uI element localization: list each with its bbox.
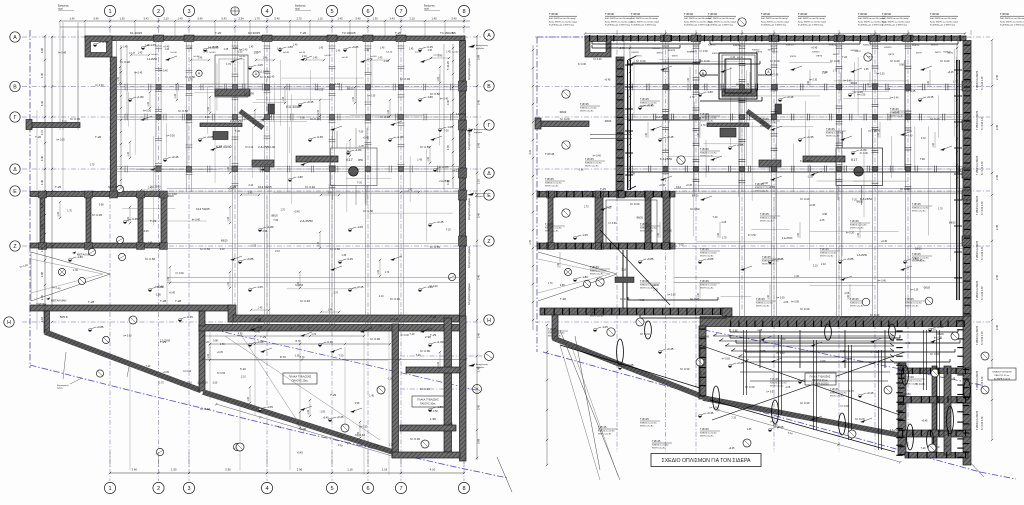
left plan room partition wall a bbox=[40, 197, 45, 244]
svg-text:+0.45: +0.45 bbox=[866, 391, 874, 395]
svg-text:ΚΦ8/20 αν στο 8ο: ΚΦ8/20 αν στο 8ο bbox=[760, 122, 777, 125]
svg-text:Φ8/20: Φ8/20 bbox=[167, 195, 174, 198]
svg-text:1.45: 1.45 bbox=[233, 48, 238, 50]
right plan boundary blue top bbox=[537, 36, 585, 38]
svg-text:1.40: 1.40 bbox=[748, 82, 750, 87]
svg-text:1.45: 1.45 bbox=[341, 254, 346, 257]
right plan left margin dim line bbox=[529, 45, 534, 330]
svg-text:Β: Β bbox=[13, 84, 17, 90]
svg-text:1: 1 bbox=[108, 486, 111, 492]
svg-text:1.45: 1.45 bbox=[249, 47, 254, 49]
svg-text:Φ8/70: Φ8/70 bbox=[888, 53, 895, 56]
left plan small labels bbox=[35, 31, 456, 441]
svg-text:2.10: 2.10 bbox=[813, 264, 818, 267]
svg-text:2.10: 2.10 bbox=[931, 328, 936, 331]
svg-text:Α: Α bbox=[13, 35, 17, 41]
svg-text:Φ8/70 πλω 8ο: Φ8/70 πλω 8ο bbox=[548, 335, 562, 338]
svg-text:h= 0.40: h= 0.40 bbox=[904, 135, 913, 138]
svg-text:h= 0.40: h= 0.40 bbox=[176, 272, 185, 275]
svg-text:Εγκάρσιος: Εγκάρσιος bbox=[58, 5, 70, 8]
svg-text:Φ8/70 πλω 8ο: Φ8/70 πλω 8ο bbox=[770, 385, 784, 388]
svg-text:Φ=Φ8/20 μαζ 2.Φ8/70 4φ: Φ=Φ8/20 μαζ 2.Φ8/70 4φ bbox=[631, 23, 656, 26]
svg-text:1.10: 1.10 bbox=[477, 178, 481, 184]
svg-text:Τ-20: Τ-20 bbox=[204, 341, 210, 344]
svg-text:Ι=0.40: Ι=0.40 bbox=[386, 51, 393, 53]
svg-text:1.40: 1.40 bbox=[431, 17, 437, 21]
svg-text:Φ=Φ8/20 μαζ 2.Φ8/70 4φ: Φ=Φ8/20 μαζ 2.Φ8/70 4φ bbox=[930, 23, 955, 26]
svg-text:+0.45: +0.45 bbox=[619, 47, 626, 50]
right plan heavy rebar left wall bbox=[625, 56, 762, 190]
svg-text:Φ8/70 πλω 8ο: Φ8/70 πλω 8ο bbox=[700, 435, 714, 438]
svg-text:8.70: 8.70 bbox=[295, 339, 301, 343]
svg-text:+0.45: +0.45 bbox=[323, 417, 330, 420]
svg-text:Τ Ø8/20 αν Φ8/70: Τ Ø8/20 αν Φ8/70 bbox=[976, 410, 979, 430]
svg-text:Φ8/20: Φ8/20 bbox=[692, 194, 699, 197]
svg-text:h= 0.50: h= 0.50 bbox=[167, 135, 176, 138]
svg-text:h= 0.40 2.40: h= 0.40 2.40 bbox=[981, 246, 984, 260]
svg-text:+0.45: +0.45 bbox=[169, 292, 176, 295]
left plan left row bubbles bbox=[4, 32, 20, 327]
svg-text:Φ=Φ8/20 μαζ 2.Φ8/70 4φ: Φ=Φ8/20 μαζ 2.Φ8/70 4φ bbox=[798, 23, 823, 26]
svg-text:Κάτω Φ8/70 αν στο 8ο σκαρί: Κάτω Φ8/70 αν στο 8ο σκαρί bbox=[930, 20, 958, 23]
svg-text:h= 0.30: h= 0.30 bbox=[630, 202, 640, 206]
svg-text:1.40: 1.40 bbox=[868, 82, 870, 87]
svg-text:1.45: 1.45 bbox=[529, 239, 532, 244]
svg-text:Τ Ø=45: Τ Ø=45 bbox=[590, 265, 599, 269]
svg-text:2.10: 2.10 bbox=[302, 55, 307, 58]
svg-text:h= 0.40 2.40: h= 0.40 2.40 bbox=[981, 76, 984, 90]
svg-text:-1.05: -1.05 bbox=[356, 225, 363, 229]
svg-text:ΠΛΑΚΑ ΤΥΦΛΩΣΗΣ: ΠΛΑΚΑ ΤΥΦΛΩΣΗΣ bbox=[992, 371, 1012, 374]
svg-text:Τ Ø=40: Τ Ø=40 bbox=[930, 12, 939, 16]
svg-text:1.45: 1.45 bbox=[408, 189, 413, 192]
svg-text:Φ8/70 πλω 8ο: Φ8/70 πλω 8ο bbox=[580, 110, 594, 113]
svg-text:1.45: 1.45 bbox=[40, 294, 44, 300]
svg-text:8.70: 8.70 bbox=[280, 355, 286, 359]
svg-text:h= 0.50: h= 0.50 bbox=[200, 247, 210, 251]
right plan column K11 bbox=[775, 104, 782, 114]
svg-text:Τ-20: Τ-20 bbox=[444, 129, 450, 132]
svg-text:ΚΦ8/20 αν στο 8ο: ΚΦ8/20 αν στο 8ο bbox=[820, 252, 837, 255]
right plan interior annotation blocks bbox=[545, 97, 932, 438]
svg-text:Τ-20: Τ-20 bbox=[823, 71, 829, 74]
svg-text:+1.80: +1.80 bbox=[266, 225, 274, 229]
svg-text:1.70: 1.70 bbox=[333, 291, 338, 294]
svg-text:Τ-20: Τ-20 bbox=[273, 219, 279, 222]
svg-text:Η: Η bbox=[7, 320, 11, 326]
svg-text:ΠΛΑΚΑ ΤΥΦΛΩΣΗΣ: ΠΛΑΚΑ ΤΥΦΛΩΣΗΣ bbox=[810, 376, 831, 379]
svg-text:Κ5: Κ5 bbox=[452, 31, 456, 35]
svg-text:ΚΦ8/20 αν στο 8ο: ΚΦ8/20 αν στο 8ο bbox=[905, 302, 922, 305]
svg-text:-1.05: -1.05 bbox=[783, 301, 789, 304]
svg-text:+0.85: +0.85 bbox=[351, 45, 359, 49]
svg-text:-1.80: -1.80 bbox=[581, 275, 588, 279]
svg-text:Τ-20: Τ-20 bbox=[338, 435, 344, 438]
svg-text:3.40: 3.40 bbox=[477, 212, 481, 218]
svg-text:Τ-28: Τ-28 bbox=[560, 297, 566, 301]
svg-text:ΚΦ8/20: ΚΦ8/20 bbox=[812, 50, 820, 53]
svg-text:1.45: 1.45 bbox=[123, 47, 128, 49]
svg-text:Τ Ø=45: Τ Ø=45 bbox=[585, 157, 594, 161]
svg-text:Τ Ø=45: Τ Ø=45 bbox=[598, 426, 607, 429]
right plan slab label a bbox=[805, 373, 836, 386]
svg-text:Κάτω Φ8/70 αν στο 8ο σκαρί: Κάτω Φ8/70 αν στο 8ο σκαρί bbox=[761, 20, 789, 23]
svg-text:h= 0.50: h= 0.50 bbox=[767, 391, 776, 394]
svg-text:+0.85: +0.85 bbox=[846, 257, 854, 261]
svg-text:Α: Α bbox=[487, 33, 491, 39]
svg-text:2.45: 2.45 bbox=[995, 324, 999, 330]
svg-text:1.40: 1.40 bbox=[347, 149, 350, 154]
svg-text:Δ: Δ bbox=[487, 171, 491, 177]
svg-text:1.40: 1.40 bbox=[227, 216, 230, 221]
svg-text:Τ Ø=40: Τ Ø=40 bbox=[549, 12, 558, 16]
svg-text:1.45: 1.45 bbox=[328, 192, 333, 195]
right plan top rebar annotation blocks bbox=[549, 12, 1024, 26]
svg-text:+0.45: +0.45 bbox=[916, 259, 923, 262]
svg-text:+0.85: +0.85 bbox=[206, 135, 214, 139]
svg-text:1.70: 1.70 bbox=[548, 282, 553, 285]
svg-text:1.70: 1.70 bbox=[690, 96, 695, 99]
svg-text:5.10: 5.10 bbox=[240, 367, 246, 371]
svg-text:h= 0.30: h= 0.30 bbox=[809, 78, 818, 81]
svg-text:Τ-28: Τ-28 bbox=[160, 299, 167, 303]
svg-text:-1.05: -1.05 bbox=[251, 245, 257, 248]
svg-text:h= 0.46: h= 0.46 bbox=[390, 317, 399, 321]
svg-text:-1.80: -1.80 bbox=[296, 175, 303, 179]
svg-text:3.40: 3.40 bbox=[132, 468, 138, 472]
left plan trapezoid dimension lines bbox=[206, 332, 391, 442]
svg-text:+0.45: +0.45 bbox=[306, 100, 314, 104]
svg-text:Φ8/70 πλω 8ο: Φ8/70 πλω 8ο bbox=[590, 273, 604, 276]
svg-text:Τ Ø8/20 αν Φ8/70: Τ Ø8/20 αν Φ8/70 bbox=[976, 370, 979, 390]
left plan top wall A-row bbox=[85, 36, 465, 41]
svg-text:+0.85: +0.85 bbox=[246, 257, 254, 261]
svg-text:Φ=Φ8/20 μαζ 2.Φ8/70 4φ: Φ=Φ8/20 μαζ 2.Φ8/70 4φ bbox=[882, 23, 907, 26]
svg-text:h= 0.50: h= 0.50 bbox=[315, 89, 324, 92]
left plan slab label 20cm bbox=[283, 373, 317, 384]
svg-text:ΚΦ8/20: ΚΦ8/20 bbox=[912, 44, 920, 47]
svg-text:ΚΦ8/20: ΚΦ8/20 bbox=[829, 43, 837, 46]
svg-text:Τ Ø8/20 αν Φ8/70: Τ Ø8/20 αν Φ8/70 bbox=[976, 155, 979, 175]
svg-text:Φ8/70: Φ8/70 bbox=[816, 55, 823, 58]
right plan longitudinal rebar lines bbox=[560, 41, 960, 452]
svg-text:h= 0.20: h= 0.20 bbox=[855, 417, 865, 421]
svg-text:1.40: 1.40 bbox=[646, 132, 648, 137]
svg-text:2.10: 2.10 bbox=[374, 445, 379, 448]
svg-text:1.45: 1.45 bbox=[653, 289, 658, 292]
svg-text:5øΚ Φ8/20 αν στο 8ο σκαρί: 5øΚ Φ8/20 αν στο 8ο σκαρί bbox=[1000, 17, 1024, 20]
svg-text:Τ-20: Τ-20 bbox=[409, 333, 415, 336]
svg-text:2.Δ.25/50: 2.Δ.25/50 bbox=[244, 92, 255, 95]
svg-text:1.45: 1.45 bbox=[187, 48, 192, 50]
svg-text:0.98: 0.98 bbox=[213, 339, 218, 342]
right plan rebar pair below box bbox=[615, 250, 634, 308]
svg-text:Αποχέτευση: Αποχέτευση bbox=[475, 192, 488, 195]
right plan lower left wall vertical bbox=[552, 315, 558, 339]
svg-text:h= 0.40 2.40: h= 0.40 2.40 bbox=[981, 116, 984, 130]
svg-text:1.40: 1.40 bbox=[127, 151, 130, 156]
svg-text:-1.05: -1.05 bbox=[383, 60, 389, 63]
left plan slab strip bbox=[296, 156, 338, 162]
svg-text:Φ8/70 πλω 8ο: Φ8/70 πλω 8ο bbox=[830, 395, 844, 398]
svg-text:0.98: 0.98 bbox=[579, 169, 584, 172]
left plan metal stair lines bbox=[19, 252, 110, 305]
svg-text:2.10: 2.10 bbox=[187, 382, 192, 385]
svg-text:h= 0.40: h= 0.40 bbox=[700, 59, 710, 63]
svg-text:Τ-20: Τ-20 bbox=[300, 31, 307, 35]
svg-text:h= 0.50: h= 0.50 bbox=[690, 207, 700, 211]
right plan rebar stirrup ovals bbox=[617, 321, 971, 450]
svg-text:Τ-20: Τ-20 bbox=[62, 121, 68, 124]
left plan top dimension chain bbox=[58, 5, 470, 29]
svg-text:Τ Ø=40: Τ Ø=40 bbox=[708, 12, 717, 16]
right plan wall H jog bbox=[722, 308, 732, 318]
svg-text:ΚΦ8/20: ΚΦ8/20 bbox=[931, 44, 939, 47]
svg-text:1.40: 1.40 bbox=[848, 294, 850, 299]
right plan beam block bbox=[759, 160, 781, 167]
svg-text:Γ: Γ bbox=[488, 123, 491, 129]
right plan beam stirrup ticks bbox=[630, 46, 959, 189]
svg-text:2.45: 2.45 bbox=[995, 174, 999, 180]
right plan boundary blue upper diagonal bbox=[704, 330, 981, 385]
svg-text:5.40: 5.40 bbox=[197, 17, 203, 21]
svg-text:Φ8/70 πλω 8ο: Φ8/70 πλω 8ο bbox=[850, 305, 864, 308]
svg-text:1.45: 1.45 bbox=[258, 327, 263, 330]
svg-text:+0.45: +0.45 bbox=[142, 230, 149, 233]
svg-text:ΚΦ8/20 αν στο 8ο: ΚΦ8/20 αν στο 8ο bbox=[700, 284, 717, 287]
svg-text:Κ13 50/25: Κ13 50/25 bbox=[196, 207, 210, 211]
left plan wall row E long bbox=[30, 192, 167, 197]
svg-text:2.45: 2.45 bbox=[995, 124, 999, 130]
svg-text:Φ=Φ8/20 μαζ 2.Φ8/70 4φ: Φ=Φ8/20 μαζ 2.Φ8/70 4φ bbox=[684, 23, 709, 26]
svg-text:2.10: 2.10 bbox=[730, 56, 735, 59]
svg-text:Τ Ø=45: Τ Ø=45 bbox=[640, 222, 649, 226]
svg-text:2.96: 2.96 bbox=[225, 468, 231, 472]
right plan column K17 copy bbox=[836, 128, 883, 205]
left plan wall row Gamma left bbox=[26, 120, 80, 130]
svg-text:2.10: 2.10 bbox=[821, 263, 826, 266]
right plan boundary blue vertical bbox=[536, 37, 538, 352]
svg-text:+0.45: +0.45 bbox=[626, 363, 634, 367]
svg-text:h= 0.30: h= 0.30 bbox=[410, 437, 420, 441]
svg-text:-1.05: -1.05 bbox=[237, 51, 243, 54]
svg-text:1.45: 1.45 bbox=[248, 192, 253, 195]
svg-text:h= 0.20: h= 0.20 bbox=[640, 332, 650, 336]
svg-text:h= 0.30: h= 0.30 bbox=[930, 352, 940, 356]
svg-text:h= 0.40: h= 0.40 bbox=[156, 286, 165, 289]
svg-text:h= 0.30: h= 0.30 bbox=[636, 59, 646, 63]
svg-text:Τ Ø=45: Τ Ø=45 bbox=[850, 219, 859, 223]
svg-text:Τ-29: Τ-29 bbox=[330, 393, 337, 397]
svg-text:ομβρίων: ομβρίων bbox=[475, 195, 484, 198]
left plan right margin rotated labels bbox=[468, 57, 471, 305]
svg-text:+0.85: +0.85 bbox=[646, 257, 654, 261]
svg-text:Φ8/20: Φ8/20 bbox=[560, 111, 567, 114]
svg-text:h= 0.40: h= 0.40 bbox=[800, 197, 810, 201]
svg-text:Φ8/70 πλω 8ο: Φ8/70 πλω 8ο bbox=[652, 447, 666, 450]
svg-text:2.45: 2.45 bbox=[477, 99, 481, 105]
svg-text:Τ Ø=45: Τ Ø=45 bbox=[762, 255, 771, 259]
svg-text:1.30: 1.30 bbox=[372, 17, 378, 21]
svg-text:Εγκάρσιος: Εγκάρσιος bbox=[295, 5, 307, 8]
svg-text:0.98: 0.98 bbox=[733, 330, 738, 333]
svg-text:Τ Ø=45: Τ Ø=45 bbox=[640, 279, 649, 283]
svg-text:Τ-20: Τ-20 bbox=[416, 354, 422, 357]
svg-text:Τ Ø8/20 αν Φ8/70: Τ Ø8/20 αν Φ8/70 bbox=[976, 70, 979, 90]
svg-text:ΚΦ8/20 αν στο 8ο: ΚΦ8/20 αν στο 8ο bbox=[545, 182, 562, 185]
left plan lower right outer wall bbox=[460, 316, 467, 461]
right plan lower left extras bbox=[546, 324, 672, 480]
svg-text:-1.05: -1.05 bbox=[785, 386, 791, 389]
svg-text:1.45: 1.45 bbox=[293, 45, 298, 47]
svg-text:3: 3 bbox=[187, 486, 190, 492]
svg-text:h= 0.40: h= 0.40 bbox=[192, 218, 201, 221]
left plan column K17 bbox=[331, 128, 378, 205]
svg-text:Φ8/70 πλω 8ο: Φ8/70 πλω 8ο bbox=[760, 220, 774, 223]
svg-text:Ζ: Ζ bbox=[13, 244, 16, 250]
right plan trapezoid crossed circles bbox=[636, 318, 989, 452]
svg-text:Φ8/70: Φ8/70 bbox=[635, 55, 642, 58]
svg-text:+0.45: +0.45 bbox=[936, 325, 944, 329]
svg-text:+0.45: +0.45 bbox=[728, 447, 735, 450]
svg-text:+0.45: +0.45 bbox=[776, 257, 784, 261]
left plan room box bottom wall bbox=[30, 243, 167, 248]
svg-text:h= 0.30: h= 0.30 bbox=[578, 63, 587, 66]
svg-text:Ι=0.40: Ι=0.40 bbox=[209, 52, 216, 54]
svg-text:h= 0.30: h= 0.30 bbox=[120, 60, 130, 64]
svg-text:5.46: 5.46 bbox=[477, 274, 481, 280]
svg-text:5øΚ Φ8/20 αν στο 8ο σκαρί: 5øΚ Φ8/20 αν στο 8ο σκαρί bbox=[761, 17, 788, 20]
left plan room right wall bbox=[161, 192, 167, 249]
left plan lower right partition vert bbox=[444, 318, 452, 452]
svg-text:h= 0.50: h= 0.50 bbox=[143, 110, 152, 113]
left plan trapezoid left jog bbox=[199, 311, 205, 326]
svg-text:Τ Ø=45: Τ Ø=45 bbox=[912, 202, 921, 206]
svg-text:Φ8/20: Φ8/20 bbox=[636, 217, 643, 220]
right plan inner ticked dimension line bbox=[629, 45, 631, 188]
right plan stair diagonal bbox=[747, 111, 770, 128]
svg-text:Φ8/20: Φ8/20 bbox=[851, 82, 858, 85]
svg-text:h= 0.30: h= 0.30 bbox=[910, 288, 919, 291]
svg-text:2.10: 2.10 bbox=[409, 17, 415, 21]
svg-text:Εγκάρσιος: Εγκάρσιος bbox=[424, 5, 436, 8]
svg-text:Τ Ø8/20 αν Φ8/70: Τ Ø8/20 αν Φ8/70 bbox=[976, 240, 979, 260]
left plan interior dimension strings bbox=[57, 66, 441, 439]
svg-text:-1.05: -1.05 bbox=[581, 233, 588, 237]
left plan room partition pilasters bbox=[39, 191, 168, 250]
svg-text:1.45: 1.45 bbox=[263, 57, 268, 60]
left plan leader arrows bbox=[140, 56, 442, 413]
svg-text:ομβρίων: ομβρίων bbox=[476, 366, 485, 369]
svg-text:1.40: 1.40 bbox=[282, 96, 285, 101]
svg-text:Τ Ø=40: Τ Ø=40 bbox=[605, 12, 614, 16]
right plan vertical rebar pairs bbox=[744, 330, 940, 450]
left plan survey stubs lower left bbox=[57, 336, 130, 389]
left plan bottom right wall bbox=[392, 452, 460, 458]
svg-text:1.40: 1.40 bbox=[317, 241, 320, 246]
svg-text:Αποχέτευση ομβρίων: Αποχέτευση ομβρίων bbox=[468, 197, 471, 220]
svg-text:Τ-20: Τ-20 bbox=[921, 447, 927, 450]
svg-text:2.10: 2.10 bbox=[248, 184, 253, 187]
svg-text:1.40: 1.40 bbox=[337, 17, 343, 21]
svg-text:Τ Ø=45: Τ Ø=45 bbox=[905, 297, 914, 301]
svg-text:Φ8/70: Φ8/70 bbox=[867, 56, 874, 59]
svg-text:ΠΑΧΟΥΣ 20 εκ.: ΠΑΧΟΥΣ 20 εκ. bbox=[812, 379, 828, 382]
svg-text:+0.45: +0.45 bbox=[736, 361, 744, 365]
svg-text:1.40: 1.40 bbox=[167, 276, 170, 281]
svg-text:Τ Ø=45: Τ Ø=45 bbox=[912, 252, 921, 256]
svg-text:h= 0.50: h= 0.50 bbox=[295, 284, 304, 287]
svg-text:ΚΦ8/20 αν στο 8ο: ΚΦ8/20 αν στο 8ο bbox=[548, 332, 565, 335]
svg-text:1.40: 1.40 bbox=[658, 232, 660, 237]
right plan extension line texture bbox=[634, 49, 957, 296]
svg-text:Ι=0.40: Ι=0.40 bbox=[283, 52, 290, 54]
svg-text:0.45: 0.45 bbox=[447, 100, 450, 105]
svg-text:5.40: 5.40 bbox=[40, 202, 44, 208]
svg-text:Αποχέτευση: Αποχέτευση bbox=[476, 44, 489, 47]
right plan crossed circle marks bbox=[562, 18, 872, 336]
svg-text:Τ-20: Τ-20 bbox=[235, 130, 241, 133]
svg-text:ΚΦ8/20: ΚΦ8/20 bbox=[668, 49, 676, 52]
drawing title box bbox=[651, 454, 761, 467]
svg-text:1.45: 1.45 bbox=[378, 57, 383, 60]
svg-text:Τ Ø8/20 αν Φ8/70: Τ Ø8/20 αν Φ8/70 bbox=[976, 110, 979, 130]
svg-text:Τ Ø=45: Τ Ø=45 bbox=[905, 375, 914, 379]
svg-text:h= 0.50: h= 0.50 bbox=[178, 109, 188, 113]
svg-text:Φ8/70: Φ8/70 bbox=[691, 50, 698, 53]
svg-text:h= 0.30: h= 0.30 bbox=[934, 337, 943, 340]
svg-text:2: 2 bbox=[157, 486, 160, 492]
svg-text:τομή: τομή bbox=[424, 7, 429, 10]
svg-text:1.40: 1.40 bbox=[174, 93, 177, 98]
svg-text:h= 0.40: h= 0.40 bbox=[776, 352, 785, 355]
svg-text:0.98: 0.98 bbox=[263, 230, 268, 233]
svg-text:Τ-20: Τ-20 bbox=[446, 229, 452, 232]
svg-text:h= 0.50: h= 0.50 bbox=[791, 301, 800, 304]
svg-text:4.70: 4.70 bbox=[238, 333, 243, 336]
svg-text:+0.45: +0.45 bbox=[706, 411, 714, 415]
svg-text:0.45: 0.45 bbox=[447, 180, 450, 185]
svg-text:2.Δ.25/50: 2.Δ.25/50 bbox=[160, 339, 171, 342]
svg-text:1.70: 1.70 bbox=[938, 207, 943, 210]
svg-text:-1.05: -1.05 bbox=[358, 145, 364, 148]
right plan right wall grid 8 bbox=[963, 41, 971, 317]
svg-text:h= 0.30: h= 0.30 bbox=[680, 367, 690, 371]
svg-text:h= 0.30: h= 0.30 bbox=[876, 73, 885, 76]
svg-text:h= 0.40: h= 0.40 bbox=[940, 59, 950, 63]
right plan trapezoid rebar mesh bbox=[713, 330, 894, 368]
left plan beam outline double lines bbox=[116, 41, 460, 325]
left plan room partition wall b bbox=[86, 197, 91, 244]
svg-text:1.40: 1.40 bbox=[227, 166, 230, 171]
svg-text:1.45: 1.45 bbox=[277, 48, 282, 50]
svg-text:Τ Ø=45: Τ Ø=45 bbox=[756, 297, 765, 301]
svg-text:2.40: 2.40 bbox=[477, 332, 481, 338]
left plan top grid bubbles 1-8 bbox=[104, 5, 469, 16]
svg-text:+0.45: +0.45 bbox=[336, 415, 344, 419]
left plan extension line texture bbox=[122, 46, 452, 289]
svg-text:Φ8/70: Φ8/70 bbox=[737, 56, 744, 59]
right plan small labels bbox=[545, 59, 950, 449]
svg-text:ΠΑΧΟΥΣ 30εκ.: ΠΑΧΟΥΣ 30εκ. bbox=[420, 403, 436, 406]
svg-text:Φ8/70: Φ8/70 bbox=[712, 52, 719, 55]
svg-text:h= 0.30: h= 0.30 bbox=[846, 232, 855, 235]
right plan room partition pilasters bbox=[547, 191, 671, 250]
svg-text:1.70: 1.70 bbox=[220, 343, 225, 346]
svg-text:Τ-25: Τ-25 bbox=[55, 185, 62, 189]
svg-text:h= 0.40: h= 0.40 bbox=[245, 146, 254, 149]
left plan lower diagonal wall 1 bbox=[45, 332, 201, 391]
